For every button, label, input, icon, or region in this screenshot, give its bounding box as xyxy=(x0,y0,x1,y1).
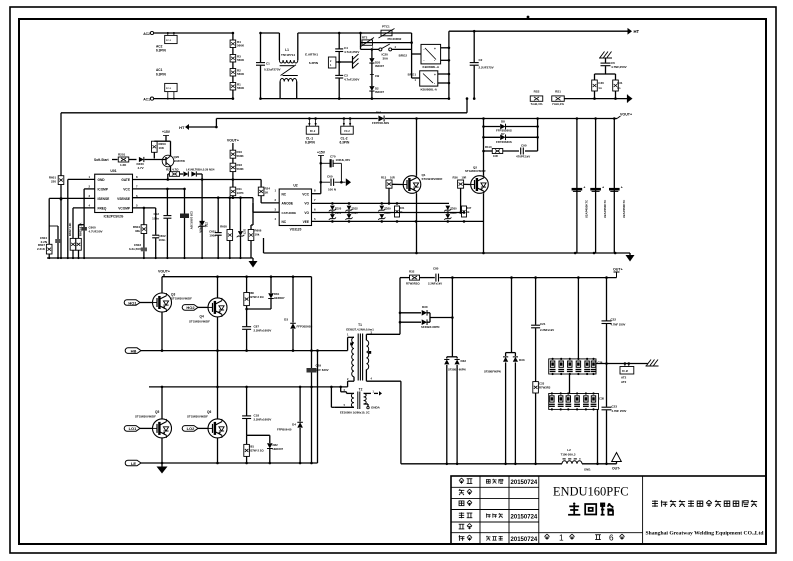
connector CL-1 xyxy=(305,117,319,144)
svg-text:HER307: HER307 xyxy=(273,447,284,451)
resistor R113 xyxy=(484,145,520,158)
snubber bank 2 xyxy=(549,392,605,410)
svg-text:ZD32: ZD32 xyxy=(351,207,358,211)
relay contact xyxy=(361,33,413,61)
svg-text:6.3PIN: 6.3PIN xyxy=(156,73,166,77)
resistor R81 xyxy=(244,435,265,463)
diode D20 relay xyxy=(369,48,384,72)
svg-text:STGW30V60DF: STGW30V60DF xyxy=(187,415,208,419)
svg-text:-: - xyxy=(434,58,435,62)
inductor L2 xyxy=(561,448,582,464)
diode D33 pair xyxy=(484,278,525,464)
svg-text:6: 6 xyxy=(609,534,614,543)
capacitor C602 xyxy=(152,234,166,258)
wire AC resistor chain xyxy=(232,32,235,100)
resistor R11 xyxy=(230,187,244,199)
wire U01 pin3 ISENSE xyxy=(49,197,94,244)
title block drawing title xyxy=(544,485,628,543)
terminal AC2 xyxy=(143,31,233,36)
svg-text:VOUT+: VOUT+ xyxy=(620,113,632,117)
svg-text:PIC40R02: PIC40R02 xyxy=(388,37,402,41)
label VOUT+ divider xyxy=(227,139,239,151)
capacitor C21 xyxy=(531,278,554,382)
diode D4 xyxy=(277,387,303,463)
svg-text:560K: 560K xyxy=(237,44,245,48)
connector AC2 FC-2 xyxy=(156,32,177,53)
svg-text:D01: D01 xyxy=(376,111,382,115)
svg-text:NC: NC xyxy=(282,220,287,224)
capacitor C1 xyxy=(256,32,281,100)
earth hatch output xyxy=(646,360,659,367)
svg-text:EE1608A 1t266x10, 2C: EE1608A 1t266x10, 2C xyxy=(340,411,370,415)
capacitor C22 xyxy=(602,278,626,364)
capacitor C604 xyxy=(40,226,61,258)
svg-text:+: + xyxy=(621,186,623,190)
capacitor C70 electrolytic xyxy=(321,155,350,168)
svg-text:+: + xyxy=(583,186,585,190)
svg-text:BRG1: BRG1 xyxy=(408,73,417,77)
resistor RS2 shunt xyxy=(530,90,543,106)
wire snubber bottom xyxy=(597,409,599,463)
svg-text:D3: D3 xyxy=(284,318,288,322)
svg-text:100n: 100n xyxy=(209,234,216,238)
svg-text:C23: C23 xyxy=(612,405,618,409)
wire inverter top rail xyxy=(162,275,312,293)
capacitor C23 xyxy=(602,364,627,464)
svg-text:HT: HT xyxy=(634,29,640,34)
capacitor C2 xyxy=(470,30,494,100)
svg-text:C30V: C30V xyxy=(450,211,457,215)
svg-text:AC1: AC1 xyxy=(156,68,163,72)
svg-text:D30: D30 xyxy=(422,305,428,309)
IC U2 gate driver VO3120 xyxy=(274,184,316,232)
svg-text:Q4: Q4 xyxy=(200,315,204,319)
svg-text:220: 220 xyxy=(51,180,56,184)
connector HO2 xyxy=(182,305,208,311)
svg-text:IN4007: IN4007 xyxy=(375,90,384,94)
svg-text:HB: HB xyxy=(131,348,137,353)
svg-text:D7: D7 xyxy=(501,132,505,136)
svg-text:T1: T1 xyxy=(358,323,362,327)
resistor R24 xyxy=(258,180,279,203)
svg-text:7mΩ,1%: 7mΩ,1% xyxy=(552,102,564,106)
svg-text:Q6: Q6 xyxy=(207,410,211,414)
svg-text:4.7nF,250V: 4.7nF,250V xyxy=(344,78,359,82)
svg-text:C20 10UF,35V: C20 10UF,35V xyxy=(190,211,194,229)
zener ZD29 xyxy=(378,206,391,220)
svg-text:R113: R113 xyxy=(485,145,492,149)
svg-text:AT2: AT2 xyxy=(621,376,627,380)
svg-text:+: + xyxy=(602,186,604,190)
svg-text:D4: D4 xyxy=(292,423,296,427)
svg-text:+15V: +15V xyxy=(162,130,171,134)
svg-text:BRG2: BRG2 xyxy=(399,54,408,58)
svg-text:BC807W: BC807W xyxy=(174,159,186,163)
svg-text:D33: D33 xyxy=(519,358,525,362)
label Soft-Start xyxy=(94,158,118,162)
svg-text:C31: C31 xyxy=(617,81,623,85)
svg-text:C21: C21 xyxy=(540,322,546,326)
svg-text:C30V: C30V xyxy=(351,211,358,215)
terminal OUT- xyxy=(612,453,622,471)
resistor R604 xyxy=(133,225,147,248)
ground control xyxy=(249,258,258,268)
capacitor C90 xyxy=(516,117,539,158)
svg-text:20150724: 20150724 xyxy=(511,480,538,486)
resistor R32 snubber xyxy=(406,270,420,286)
svg-text:LO1: LO1 xyxy=(129,426,138,431)
wire output bottom rail xyxy=(401,463,617,466)
capacitor C7 bulk electrolytic xyxy=(572,117,589,253)
svg-text:1n: 1n xyxy=(617,86,621,90)
ground earth hatch near E.ARTH xyxy=(338,54,359,69)
diode D82 xyxy=(247,435,284,463)
svg-text:2.2NFx1kV: 2.2NFx1kV xyxy=(428,282,442,286)
svg-text:2.21K: 2.21K xyxy=(37,247,46,251)
svg-text:E.ARTH1: E.ARTH1 xyxy=(305,53,318,57)
thermistor PTC1 xyxy=(359,25,411,41)
svg-text:DZ7: DZ7 xyxy=(243,229,247,235)
capacitor C4 xyxy=(335,32,359,75)
wire phase rail HB xyxy=(161,349,348,352)
zener ZD1 xyxy=(198,180,208,259)
svg-text:Q5: Q5 xyxy=(155,410,159,414)
svg-text:560K: 560K xyxy=(237,86,245,90)
wire U01 pin2 ICOMP xyxy=(79,189,95,239)
svg-text:U01: U01 xyxy=(110,169,116,173)
wire U01 pin6 VSENSE line xyxy=(133,196,254,199)
diode D3 xyxy=(284,277,312,351)
svg-text:C29: C29 xyxy=(316,364,322,368)
svg-text:VO3120: VO3120 xyxy=(290,228,302,232)
svg-text:137K: 137K xyxy=(237,191,245,195)
svg-text:OUT-: OUT- xyxy=(612,467,620,471)
svg-text:+: + xyxy=(434,73,436,77)
svg-text:FFP30S60S: FFP30S60S xyxy=(496,140,512,144)
svg-text:~: ~ xyxy=(423,47,425,51)
wire snubber mid link xyxy=(569,374,571,394)
diode D81 xyxy=(247,277,285,309)
svg-text:4.7NF,250V: 4.7NF,250V xyxy=(611,65,627,69)
terminal HT left arrow xyxy=(179,119,218,131)
resistor R4 xyxy=(230,40,245,48)
svg-text:+15V: +15V xyxy=(317,151,326,155)
svg-text:30A: 30A xyxy=(383,57,389,61)
svg-text:X2AP450K7C: X2AP450K7C xyxy=(622,199,626,218)
svg-text:U2: U2 xyxy=(293,184,297,188)
svg-text:C30V: C30V xyxy=(335,211,342,215)
svg-text:R605: R605 xyxy=(220,225,227,229)
resistor R1 xyxy=(230,83,245,91)
svg-text:1W: 1W xyxy=(375,74,380,78)
svg-text:10R: 10R xyxy=(390,176,395,180)
svg-text:R7W3R3: R7W3R3 xyxy=(539,386,551,390)
svg-text:T2: T2 xyxy=(359,388,363,392)
resistor R31 snub xyxy=(606,74,623,100)
transformer T2 current sense xyxy=(331,387,382,415)
svg-text:ZD20: ZD20 xyxy=(335,207,342,211)
wire U01 pin7 VCC line xyxy=(133,188,186,216)
svg-text:10k: 10k xyxy=(255,233,260,237)
resistor R606 xyxy=(248,198,262,258)
svg-text:C2: C2 xyxy=(479,58,483,62)
svg-text:1.2K: 1.2K xyxy=(120,163,127,167)
svg-text:L2: L2 xyxy=(567,448,571,452)
svg-text:-: - xyxy=(434,81,435,85)
zener ZD30 xyxy=(444,206,457,220)
svg-text:10R: 10R xyxy=(462,176,467,180)
wire U01 pin5 VCOMP xyxy=(133,207,156,235)
capacitor C6 xyxy=(601,61,627,74)
svg-text:560K: 560K xyxy=(237,72,245,76)
transistor Q20 xyxy=(162,141,185,172)
ground inverter xyxy=(157,463,168,474)
connector LO2 xyxy=(182,426,208,432)
wire AC to relay xyxy=(280,33,449,99)
svg-text:1: 1 xyxy=(559,534,564,543)
svg-text:IN4007: IN4007 xyxy=(375,64,384,68)
IGBT Q5 xyxy=(135,386,172,463)
svg-text:R36: R36 xyxy=(453,176,459,180)
svg-text:2.2NFx1kV: 2.2NFx1kV xyxy=(540,328,554,332)
svg-text:ZD30: ZD30 xyxy=(450,207,457,211)
svg-text:X2AP450K7C: X2AP450K7C xyxy=(584,199,588,218)
diode D7 xyxy=(484,132,538,144)
capacitor C12 xyxy=(152,212,171,258)
wire rectifier mid vertical xyxy=(447,278,457,359)
svg-text:ZD29: ZD29 xyxy=(384,207,391,211)
title block row labels xyxy=(459,478,473,541)
svg-text:560K: 560K xyxy=(237,58,245,62)
svg-text:FFPB06-60: FFPB06-60 xyxy=(277,428,292,432)
svg-text:D32: D32 xyxy=(461,359,467,363)
diode D8 xyxy=(484,120,538,133)
resistor RS1 shunt xyxy=(552,90,565,106)
svg-text:ENDU160PFC: ENDU160PFC xyxy=(553,485,629,499)
svg-text:GATE: GATE xyxy=(121,178,130,182)
diode D30 pair xyxy=(400,305,454,329)
svg-text:FC-2: FC-2 xyxy=(310,130,316,133)
capacitor C18 xyxy=(242,387,271,435)
resistor R37 gate xyxy=(462,206,472,217)
svg-text:AC2: AC2 xyxy=(143,32,150,36)
capacitor C9 bulk electrolytic xyxy=(609,117,626,253)
svg-text:Shanghai Greatway Welding Equi: Shanghai Greatway Welding Equipment CO.,… xyxy=(646,531,765,537)
svg-text:VCOMP: VCOMP xyxy=(118,207,131,211)
resistor R201 xyxy=(118,153,137,168)
resistor R10 xyxy=(230,150,244,163)
title block company xyxy=(646,500,765,537)
svg-text:T5F1P714: T5F1P714 xyxy=(281,53,295,57)
svg-text:RT2: RT2 xyxy=(362,36,368,40)
wire U01 pin8 GATE line xyxy=(133,178,262,181)
svg-text:Soft-Start: Soft-Start xyxy=(94,158,109,162)
resistor R3 xyxy=(230,55,245,63)
svg-text:ICOMP: ICOMP xyxy=(98,188,109,192)
svg-text:R21: R21 xyxy=(166,168,172,172)
transformer T1 xyxy=(346,323,401,387)
svg-text:33k: 33k xyxy=(135,229,140,233)
svg-text:X2AP450K7C: X2AP450K7C xyxy=(603,199,607,218)
zener ZD20 xyxy=(329,206,342,220)
svg-text:GND.: GND. xyxy=(584,468,591,472)
wire bridge output HT rail xyxy=(448,31,628,100)
svg-text:+: + xyxy=(434,47,436,51)
svg-text:R602 1.2K: R602 1.2K xyxy=(68,223,72,236)
earth hatch top right xyxy=(599,52,612,63)
capacitor C29 xyxy=(307,277,329,463)
resistor R602 xyxy=(68,223,76,258)
svg-text:HO2: HO2 xyxy=(186,305,195,310)
wire U01 pin4 FREQ xyxy=(73,208,95,239)
svg-text:R31: R31 xyxy=(400,206,405,210)
svg-text:GNDA: GNDA xyxy=(371,406,381,410)
svg-text:1n: 1n xyxy=(598,86,602,90)
svg-text:C12: C12 xyxy=(153,212,159,216)
resistor R80 xyxy=(244,277,265,327)
zener DZ7 xyxy=(237,198,247,258)
svg-text:2.2NFx1600V: 2.2NFx1600V xyxy=(254,329,272,333)
svg-text:100n: 100n xyxy=(159,238,166,242)
svg-text:C60: C60 xyxy=(327,175,333,179)
capacitor C87 xyxy=(242,325,271,351)
svg-text:SF30BF60PN: SF30BF60PN xyxy=(484,370,501,374)
wire bridge input xyxy=(412,49,421,78)
resistor R20 xyxy=(152,141,167,158)
ground PFC bus xyxy=(626,253,635,262)
svg-text:ISENSE: ISENSE xyxy=(98,197,110,201)
label GND xyxy=(584,468,591,472)
IGBT Q4 xyxy=(189,277,227,387)
svg-text:C80: C80 xyxy=(433,267,439,271)
title block table xyxy=(451,476,766,544)
svg-text:VOUT+: VOUT+ xyxy=(158,270,170,274)
svg-text:AC1: AC1 xyxy=(143,98,150,102)
terminal OUT+ xyxy=(613,268,623,278)
IGBT Q2 xyxy=(465,117,488,253)
svg-text:T106-26A,3: T106-26A,3 xyxy=(561,453,576,457)
diode D01 xyxy=(372,111,389,125)
connector HO1 xyxy=(124,300,152,306)
IGBT Q3 xyxy=(153,293,193,351)
svg-text:NC: NC xyxy=(282,193,287,197)
svg-text:560K: 560K xyxy=(237,167,245,171)
svg-text:20150724: 20150724 xyxy=(511,514,538,520)
bridge rectifier BRG1 xyxy=(408,71,449,92)
wire secondary bottom to out- xyxy=(400,381,402,464)
IGBT Q6 xyxy=(187,387,227,463)
diodes D20 D21 gate xyxy=(180,168,215,180)
wire PFC emitter bus xyxy=(264,238,631,254)
svg-text:C38: C38 xyxy=(599,397,604,401)
svg-text:1N4746A: 1N4746A xyxy=(199,221,203,233)
svg-text:ZD1: ZD1 xyxy=(205,222,209,228)
svg-text:2.2NFx1600V: 2.2NFx1600V xyxy=(254,418,272,422)
resistor R607 xyxy=(37,243,52,258)
svg-text:6.3PIN: 6.3PIN xyxy=(309,61,318,65)
connector LE xyxy=(125,460,162,466)
svg-text:R7W5R2Ω: R7W5R2Ω xyxy=(406,282,420,286)
ground U2 arrow xyxy=(346,178,351,186)
snubber bank 1 xyxy=(549,358,603,375)
svg-text:C1: C1 xyxy=(266,62,270,66)
svg-text:3.3n,50V: 3.3n,50V xyxy=(129,247,141,251)
wire secondary top feed xyxy=(399,278,402,335)
svg-text:HT: HT xyxy=(179,125,185,130)
svg-text:L4148,T6BA,0.29 NS4: L4148,T6BA,0.29 NS4 xyxy=(186,168,215,172)
svg-text:OUT+: OUT+ xyxy=(613,268,623,272)
wire U2 cathode feedback xyxy=(253,203,279,212)
capacitor C601 xyxy=(209,198,222,258)
resistor R36 gate Q2 xyxy=(453,176,471,214)
svg-text:RS1: RS1 xyxy=(555,90,561,94)
connector HB xyxy=(125,348,162,354)
bridge rectifier BRG2 xyxy=(399,44,449,68)
svg-text:470PF,1kV: 470PF,1kV xyxy=(516,155,530,159)
wire U01 pin1 GND xyxy=(68,179,95,258)
svg-text:VEE: VEE xyxy=(303,220,309,224)
capacitor C80 xyxy=(428,267,442,286)
terminal VOUT+ right xyxy=(617,113,632,119)
resistor R31 gate xyxy=(395,206,405,217)
svg-text:10R: 10R xyxy=(493,154,498,158)
terminal AC1 xyxy=(143,97,233,102)
wire U2 VO gate drive lines xyxy=(312,202,485,223)
svg-text:4.7V: 4.7V xyxy=(138,166,144,170)
thermistor PTC2 xyxy=(360,33,412,49)
diode D2 xyxy=(369,86,384,100)
svg-text:4.7NF 250V: 4.7NF 250V xyxy=(611,323,626,327)
capacitor C3 xyxy=(335,74,359,100)
svg-text:VCC: VCC xyxy=(302,193,309,197)
connector AC1 FC-2 xyxy=(156,68,177,100)
zener DZ20 xyxy=(137,157,167,170)
connector CL-2 xyxy=(340,117,354,144)
svg-text:ICE2PCS02G: ICE2PCS02G xyxy=(104,215,124,219)
svg-text:FC-2: FC-2 xyxy=(344,130,350,133)
wire aux vertical xyxy=(317,351,319,463)
svg-text:VOUT+: VOUT+ xyxy=(227,139,239,143)
svg-text:GND: GND xyxy=(98,178,106,182)
resistor R2 xyxy=(230,69,245,77)
capacitor C600 xyxy=(81,225,102,258)
capacitor C8 bulk electrolytic xyxy=(590,117,607,253)
terminal shunt sense arrow xyxy=(564,95,632,103)
svg-text:LO2: LO2 xyxy=(187,426,196,431)
svg-text:100 N: 100 N xyxy=(328,188,336,192)
zener ZD32 xyxy=(345,206,358,220)
wire lower phase rail xyxy=(149,386,348,389)
svg-text:R201: R201 xyxy=(118,153,126,157)
diode D32 pair xyxy=(444,359,466,464)
wire output top rail xyxy=(400,276,617,279)
capacitor C20 electrolytic xyxy=(180,189,194,258)
svg-text:SF30BF-60PN: SF30BF-60PN xyxy=(421,325,439,329)
resistor R601 xyxy=(49,176,64,185)
resistor R21 gate xyxy=(166,168,180,180)
title block names and dates xyxy=(486,479,538,543)
svg-text:R27W-2 2Ω: R27W-2 2Ω xyxy=(249,295,265,299)
svg-text:KBU808L-A: KBU808L-A xyxy=(420,88,437,92)
svg-text:D8: D8 xyxy=(501,120,505,124)
svg-text:~: ~ xyxy=(423,58,425,62)
power +15V U2 xyxy=(312,151,326,194)
svg-text:C30: C30 xyxy=(598,81,604,85)
svg-text:AT2: AT2 xyxy=(621,380,627,384)
svg-text:4.7NF 250V: 4.7NF 250V xyxy=(612,409,627,413)
svg-text:PTC1: PTC1 xyxy=(382,25,390,29)
svg-text:HER307: HER307 xyxy=(274,296,285,300)
